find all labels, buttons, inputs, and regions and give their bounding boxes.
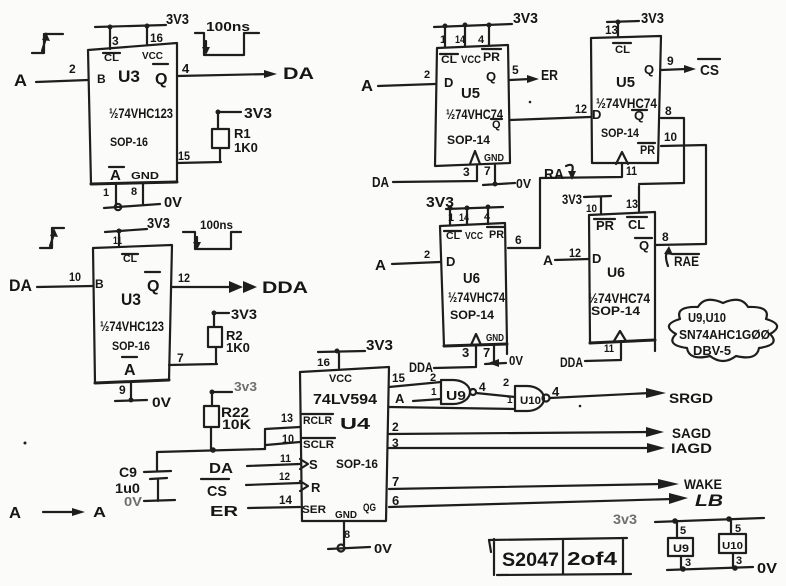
svg-text:PR: PR xyxy=(489,229,504,241)
svg-text:8: 8 xyxy=(662,230,669,244)
svg-text:CL: CL xyxy=(615,44,630,56)
svg-text:3v3: 3v3 xyxy=(613,511,637,527)
svg-text:SER: SER xyxy=(302,504,326,516)
svg-text:4: 4 xyxy=(484,211,491,223)
svg-text:1K0: 1K0 xyxy=(234,140,258,155)
svg-text:3V3: 3V3 xyxy=(426,194,454,211)
svg-text:2of4: 2of4 xyxy=(567,549,617,569)
svg-text:SRGD: SRGD xyxy=(669,390,713,406)
svg-text:U3: U3 xyxy=(121,290,141,309)
svg-text:0V: 0V xyxy=(374,541,392,556)
svg-text:CL: CL xyxy=(104,53,119,64)
svg-text:CL: CL xyxy=(446,231,460,242)
svg-text:VCC: VCC xyxy=(142,51,163,62)
svg-text:A: A xyxy=(395,391,405,406)
svg-text:15: 15 xyxy=(178,149,190,163)
svg-text:U5: U5 xyxy=(616,74,635,91)
svg-text:8: 8 xyxy=(344,529,350,541)
svg-text:7: 7 xyxy=(483,345,490,360)
svg-text:13: 13 xyxy=(605,23,618,37)
svg-text:A: A xyxy=(93,504,106,521)
svg-text:VCC: VCC xyxy=(465,231,483,242)
svg-text:DA: DA xyxy=(209,460,233,477)
svg-text:8: 8 xyxy=(131,186,137,198)
svg-text:3: 3 xyxy=(462,345,469,360)
svg-text:RCLR: RCLR xyxy=(303,415,332,427)
svg-text:A: A xyxy=(375,257,386,274)
svg-text:DA: DA xyxy=(372,174,389,191)
svg-text:R: R xyxy=(311,480,321,495)
svg-text:C9: C9 xyxy=(119,464,137,480)
svg-text:D: D xyxy=(592,107,601,122)
svg-text:Q: Q xyxy=(644,62,654,77)
svg-text:12: 12 xyxy=(178,271,190,285)
svg-text:12: 12 xyxy=(279,471,290,483)
svg-text:11: 11 xyxy=(626,164,637,178)
svg-text:D: D xyxy=(444,75,453,90)
svg-text:1: 1 xyxy=(440,34,446,46)
svg-text:VCC: VCC xyxy=(329,373,352,385)
svg-text:1: 1 xyxy=(103,187,109,199)
svg-text:R1: R1 xyxy=(234,126,251,141)
svg-text:0V: 0V xyxy=(516,176,531,191)
svg-text:Q: Q xyxy=(639,238,649,253)
svg-text:11: 11 xyxy=(280,453,291,465)
svg-text:GND: GND xyxy=(484,153,504,164)
svg-text:7: 7 xyxy=(177,351,184,365)
svg-text:0V: 0V xyxy=(757,560,777,577)
svg-text:9: 9 xyxy=(667,54,674,68)
svg-text:10: 10 xyxy=(282,432,294,446)
svg-text:7: 7 xyxy=(484,164,491,178)
svg-text:½74VHC123: ½74VHC123 xyxy=(109,105,173,121)
svg-text:10: 10 xyxy=(69,270,81,284)
svg-text:1K0: 1K0 xyxy=(226,340,250,355)
svg-text:3: 3 xyxy=(736,555,742,567)
svg-text:U9,U10: U9,U10 xyxy=(688,310,726,325)
svg-text:0V: 0V xyxy=(509,353,523,368)
svg-text:SOP-14: SOP-14 xyxy=(447,133,490,147)
svg-text:11: 11 xyxy=(113,235,122,247)
svg-text:WAKE: WAKE xyxy=(684,476,722,492)
svg-text:10K: 10K xyxy=(222,416,251,432)
svg-text:Q: Q xyxy=(147,278,159,295)
svg-text:1: 1 xyxy=(448,212,454,224)
svg-text:½74VHC74: ½74VHC74 xyxy=(596,95,657,111)
svg-text:GND: GND xyxy=(131,171,159,182)
svg-text:3: 3 xyxy=(112,34,119,48)
svg-text:DBV-5: DBV-5 xyxy=(693,343,731,358)
svg-text:PR: PR xyxy=(596,218,615,233)
svg-text:3v3: 3v3 xyxy=(234,379,257,394)
svg-text:8: 8 xyxy=(665,104,672,118)
svg-text:U6: U6 xyxy=(463,270,480,287)
svg-text:3V3: 3V3 xyxy=(562,191,582,207)
svg-text:3V3: 3V3 xyxy=(513,10,538,27)
svg-text:SOP-16: SOP-16 xyxy=(112,339,150,353)
svg-text:GND: GND xyxy=(486,333,504,344)
svg-text:SAGD: SAGD xyxy=(672,425,711,441)
svg-text:PR: PR xyxy=(640,143,655,157)
svg-text:Q: Q xyxy=(486,69,496,84)
svg-text:3V3: 3V3 xyxy=(231,306,257,322)
svg-text:7: 7 xyxy=(392,474,399,489)
svg-text:PR: PR xyxy=(483,50,500,64)
svg-text:ER: ER xyxy=(210,503,238,520)
svg-text:100ns: 100ns xyxy=(200,218,233,232)
svg-text:D: D xyxy=(446,254,455,269)
svg-text:Q: Q xyxy=(155,71,167,88)
svg-text:U4: U4 xyxy=(340,416,370,433)
svg-text:SCLR: SCLR xyxy=(303,439,334,451)
svg-text:2: 2 xyxy=(424,249,430,261)
svg-text:U9: U9 xyxy=(673,543,689,555)
svg-text:10: 10 xyxy=(664,130,677,144)
svg-text:CS: CS xyxy=(700,62,719,79)
svg-text:2: 2 xyxy=(392,420,399,434)
svg-text:QG: QG xyxy=(363,502,376,514)
svg-text:B: B xyxy=(95,277,104,291)
svg-text:S2047: S2047 xyxy=(502,550,559,571)
svg-text:9: 9 xyxy=(119,383,126,397)
svg-text:IAGD: IAGD xyxy=(671,440,712,456)
svg-text:2: 2 xyxy=(69,62,76,76)
svg-text:S: S xyxy=(309,457,318,472)
svg-text:5: 5 xyxy=(735,523,741,535)
svg-text:A: A xyxy=(543,252,553,268)
svg-text:CL: CL xyxy=(441,54,457,66)
svg-text:3V3: 3V3 xyxy=(147,215,170,232)
svg-text:3V3: 3V3 xyxy=(366,337,393,354)
svg-text:14: 14 xyxy=(455,34,466,46)
svg-text:U9: U9 xyxy=(446,388,466,403)
svg-text:74LV594: 74LV594 xyxy=(313,391,378,408)
svg-text:DA: DA xyxy=(283,64,314,83)
svg-text:16: 16 xyxy=(150,31,163,45)
svg-text:1: 1 xyxy=(431,387,437,398)
svg-text:4: 4 xyxy=(478,34,485,46)
svg-text:U3: U3 xyxy=(118,67,140,86)
svg-text:11: 11 xyxy=(604,343,614,355)
svg-text:SOP-14: SOP-14 xyxy=(591,304,640,318)
svg-text:A: A xyxy=(9,505,21,522)
svg-text:CL: CL xyxy=(628,217,645,232)
svg-text:14: 14 xyxy=(279,493,292,507)
svg-text:3V3: 3V3 xyxy=(244,105,272,122)
svg-text:SOP-14: SOP-14 xyxy=(450,308,494,322)
svg-text:0V: 0V xyxy=(124,494,142,509)
svg-text:4: 4 xyxy=(182,61,190,76)
svg-text:LB: LB xyxy=(695,491,723,510)
svg-text:3V3: 3V3 xyxy=(641,10,664,27)
svg-text:A: A xyxy=(110,167,121,184)
svg-text:SOP-16: SOP-16 xyxy=(336,457,378,471)
svg-text:ER: ER xyxy=(541,67,558,84)
svg-text:5: 5 xyxy=(512,63,519,77)
svg-text:RA: RA xyxy=(544,166,564,183)
svg-text:VCC: VCC xyxy=(461,54,481,66)
svg-text:DA: DA xyxy=(9,276,32,295)
svg-text:6: 6 xyxy=(515,233,522,247)
svg-text:U10: U10 xyxy=(722,541,743,552)
svg-text:4: 4 xyxy=(479,380,486,394)
svg-text:½74VHC74: ½74VHC74 xyxy=(448,289,505,305)
svg-text:U10: U10 xyxy=(520,395,541,407)
svg-text:13: 13 xyxy=(626,197,638,211)
svg-text:100ns: 100ns xyxy=(206,19,250,34)
svg-text:½74VHC123: ½74VHC123 xyxy=(100,318,164,334)
svg-text:A: A xyxy=(361,78,373,95)
svg-text:15: 15 xyxy=(392,371,405,385)
svg-text:A: A xyxy=(14,71,27,90)
svg-text:SOP-16: SOP-16 xyxy=(110,135,148,149)
svg-text:CS: CS xyxy=(207,483,227,500)
svg-text:16: 16 xyxy=(317,357,330,369)
svg-text:DDA: DDA xyxy=(262,278,308,297)
svg-text:3: 3 xyxy=(463,165,470,179)
svg-text:D: D xyxy=(592,251,601,266)
svg-text:12: 12 xyxy=(575,102,587,116)
svg-text:U5: U5 xyxy=(461,85,480,102)
svg-text:B: B xyxy=(97,72,106,86)
svg-text:U6: U6 xyxy=(607,264,625,280)
svg-text:SOP-14: SOP-14 xyxy=(601,126,639,140)
svg-text:2: 2 xyxy=(424,69,430,81)
svg-text:2: 2 xyxy=(430,372,436,384)
svg-text:A: A xyxy=(124,362,136,379)
svg-text:0V: 0V xyxy=(152,394,172,410)
svg-text:10: 10 xyxy=(586,203,597,215)
svg-text:5: 5 xyxy=(680,525,686,537)
svg-text:Q: Q xyxy=(492,119,501,131)
svg-text:GND: GND xyxy=(335,510,357,521)
svg-text:14: 14 xyxy=(459,212,470,224)
svg-text:DDA: DDA xyxy=(560,354,583,370)
svg-text:0V: 0V xyxy=(164,194,182,211)
svg-text:RAE: RAE xyxy=(674,253,699,269)
svg-text:13: 13 xyxy=(281,411,293,425)
svg-text:3V3: 3V3 xyxy=(166,11,189,28)
svg-text:2: 2 xyxy=(503,377,509,389)
svg-text:12: 12 xyxy=(569,246,581,260)
svg-text:3: 3 xyxy=(685,557,691,569)
svg-text:SN74AHC1GØØ: SN74AHC1GØØ xyxy=(679,327,770,342)
